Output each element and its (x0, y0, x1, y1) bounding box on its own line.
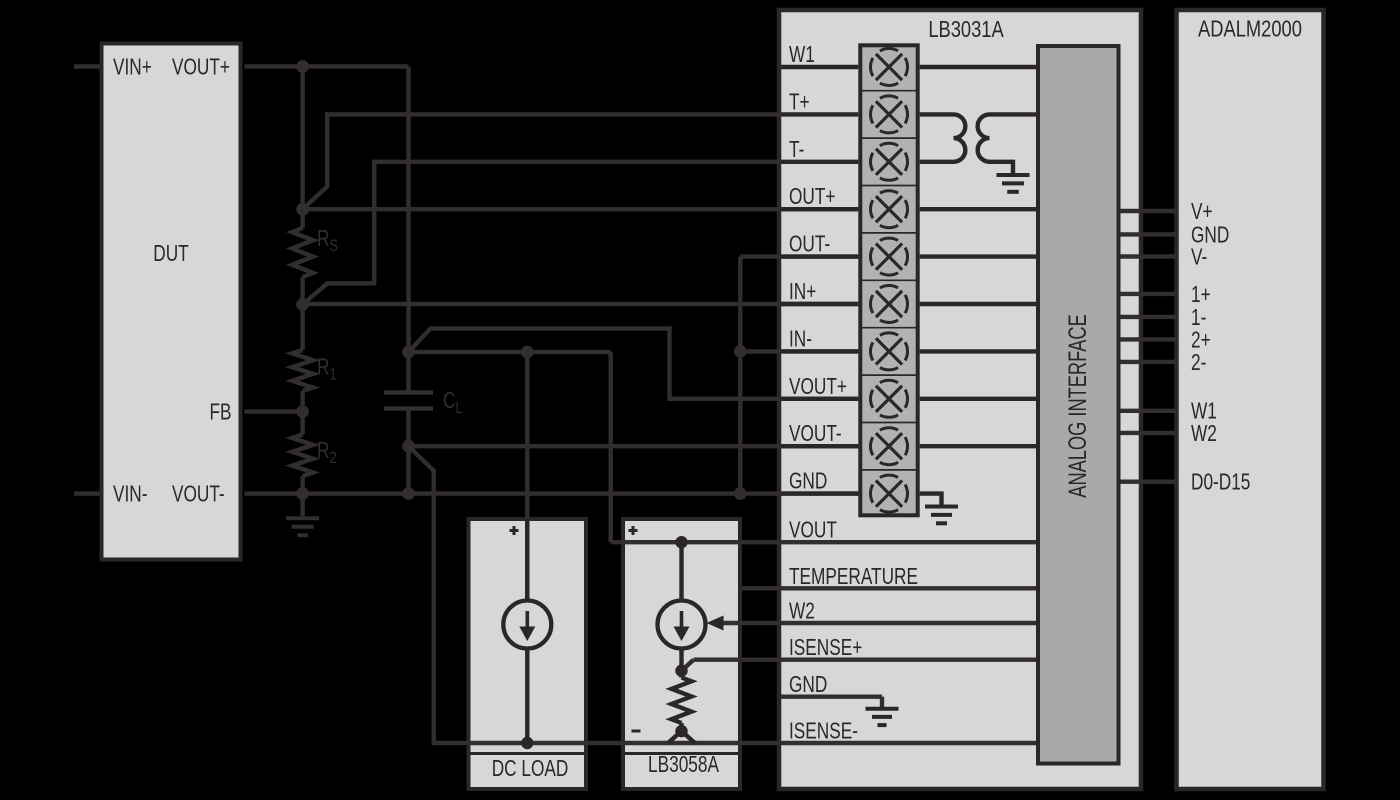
svg-text:VOUT-: VOUT- (172, 482, 225, 507)
svg-text:VOUT: VOUT (789, 518, 837, 543)
svg-text:W2: W2 (789, 599, 815, 624)
svg-text:LB3058A: LB3058A (648, 753, 719, 778)
svg-text:1-: 1- (1191, 306, 1206, 331)
svg-text:GND: GND (789, 469, 827, 494)
svg-text:2+: 2+ (1191, 328, 1211, 353)
svg-text:V+: V+ (1191, 200, 1213, 225)
svg-text:V-: V- (1191, 245, 1207, 270)
svg-text:IN-: IN- (789, 327, 812, 352)
svg-text:2-: 2- (1191, 351, 1206, 376)
svg-text:W1: W1 (789, 43, 815, 68)
svg-text:ISENSE+: ISENSE+ (789, 636, 862, 661)
svg-text:TEMPERATURE: TEMPERATURE (789, 565, 918, 590)
svg-text:ISENSE-: ISENSE- (789, 719, 858, 744)
svg-text:ADALM2000: ADALM2000 (1198, 16, 1302, 42)
svg-text:W2: W2 (1191, 422, 1217, 447)
svg-text:D0-D15: D0-D15 (1191, 470, 1250, 495)
svg-text:VOUT-: VOUT- (789, 422, 842, 447)
svg-text:IN+: IN+ (789, 280, 816, 305)
svg-text:OUT+: OUT+ (789, 185, 835, 210)
svg-text:FB: FB (209, 400, 231, 425)
svg-text:T+: T+ (789, 90, 810, 115)
svg-text:1+: 1+ (1191, 283, 1211, 308)
svg-text:T-: T- (789, 138, 804, 163)
svg-text:VIN-: VIN- (113, 482, 147, 507)
svg-text:ANALOG INTERFACE: ANALOG INTERFACE (1063, 314, 1092, 497)
svg-text:VOUT+: VOUT+ (789, 375, 847, 400)
svg-text:LB3031A: LB3031A (928, 17, 1003, 43)
svg-text:DC LOAD: DC LOAD (492, 757, 569, 782)
svg-text:GND: GND (789, 673, 827, 698)
svg-text:VOUT+: VOUT+ (172, 55, 230, 80)
svg-text:OUT-: OUT- (789, 232, 830, 257)
svg-text:DUT: DUT (153, 242, 188, 267)
svg-text:VIN+: VIN+ (113, 55, 152, 80)
